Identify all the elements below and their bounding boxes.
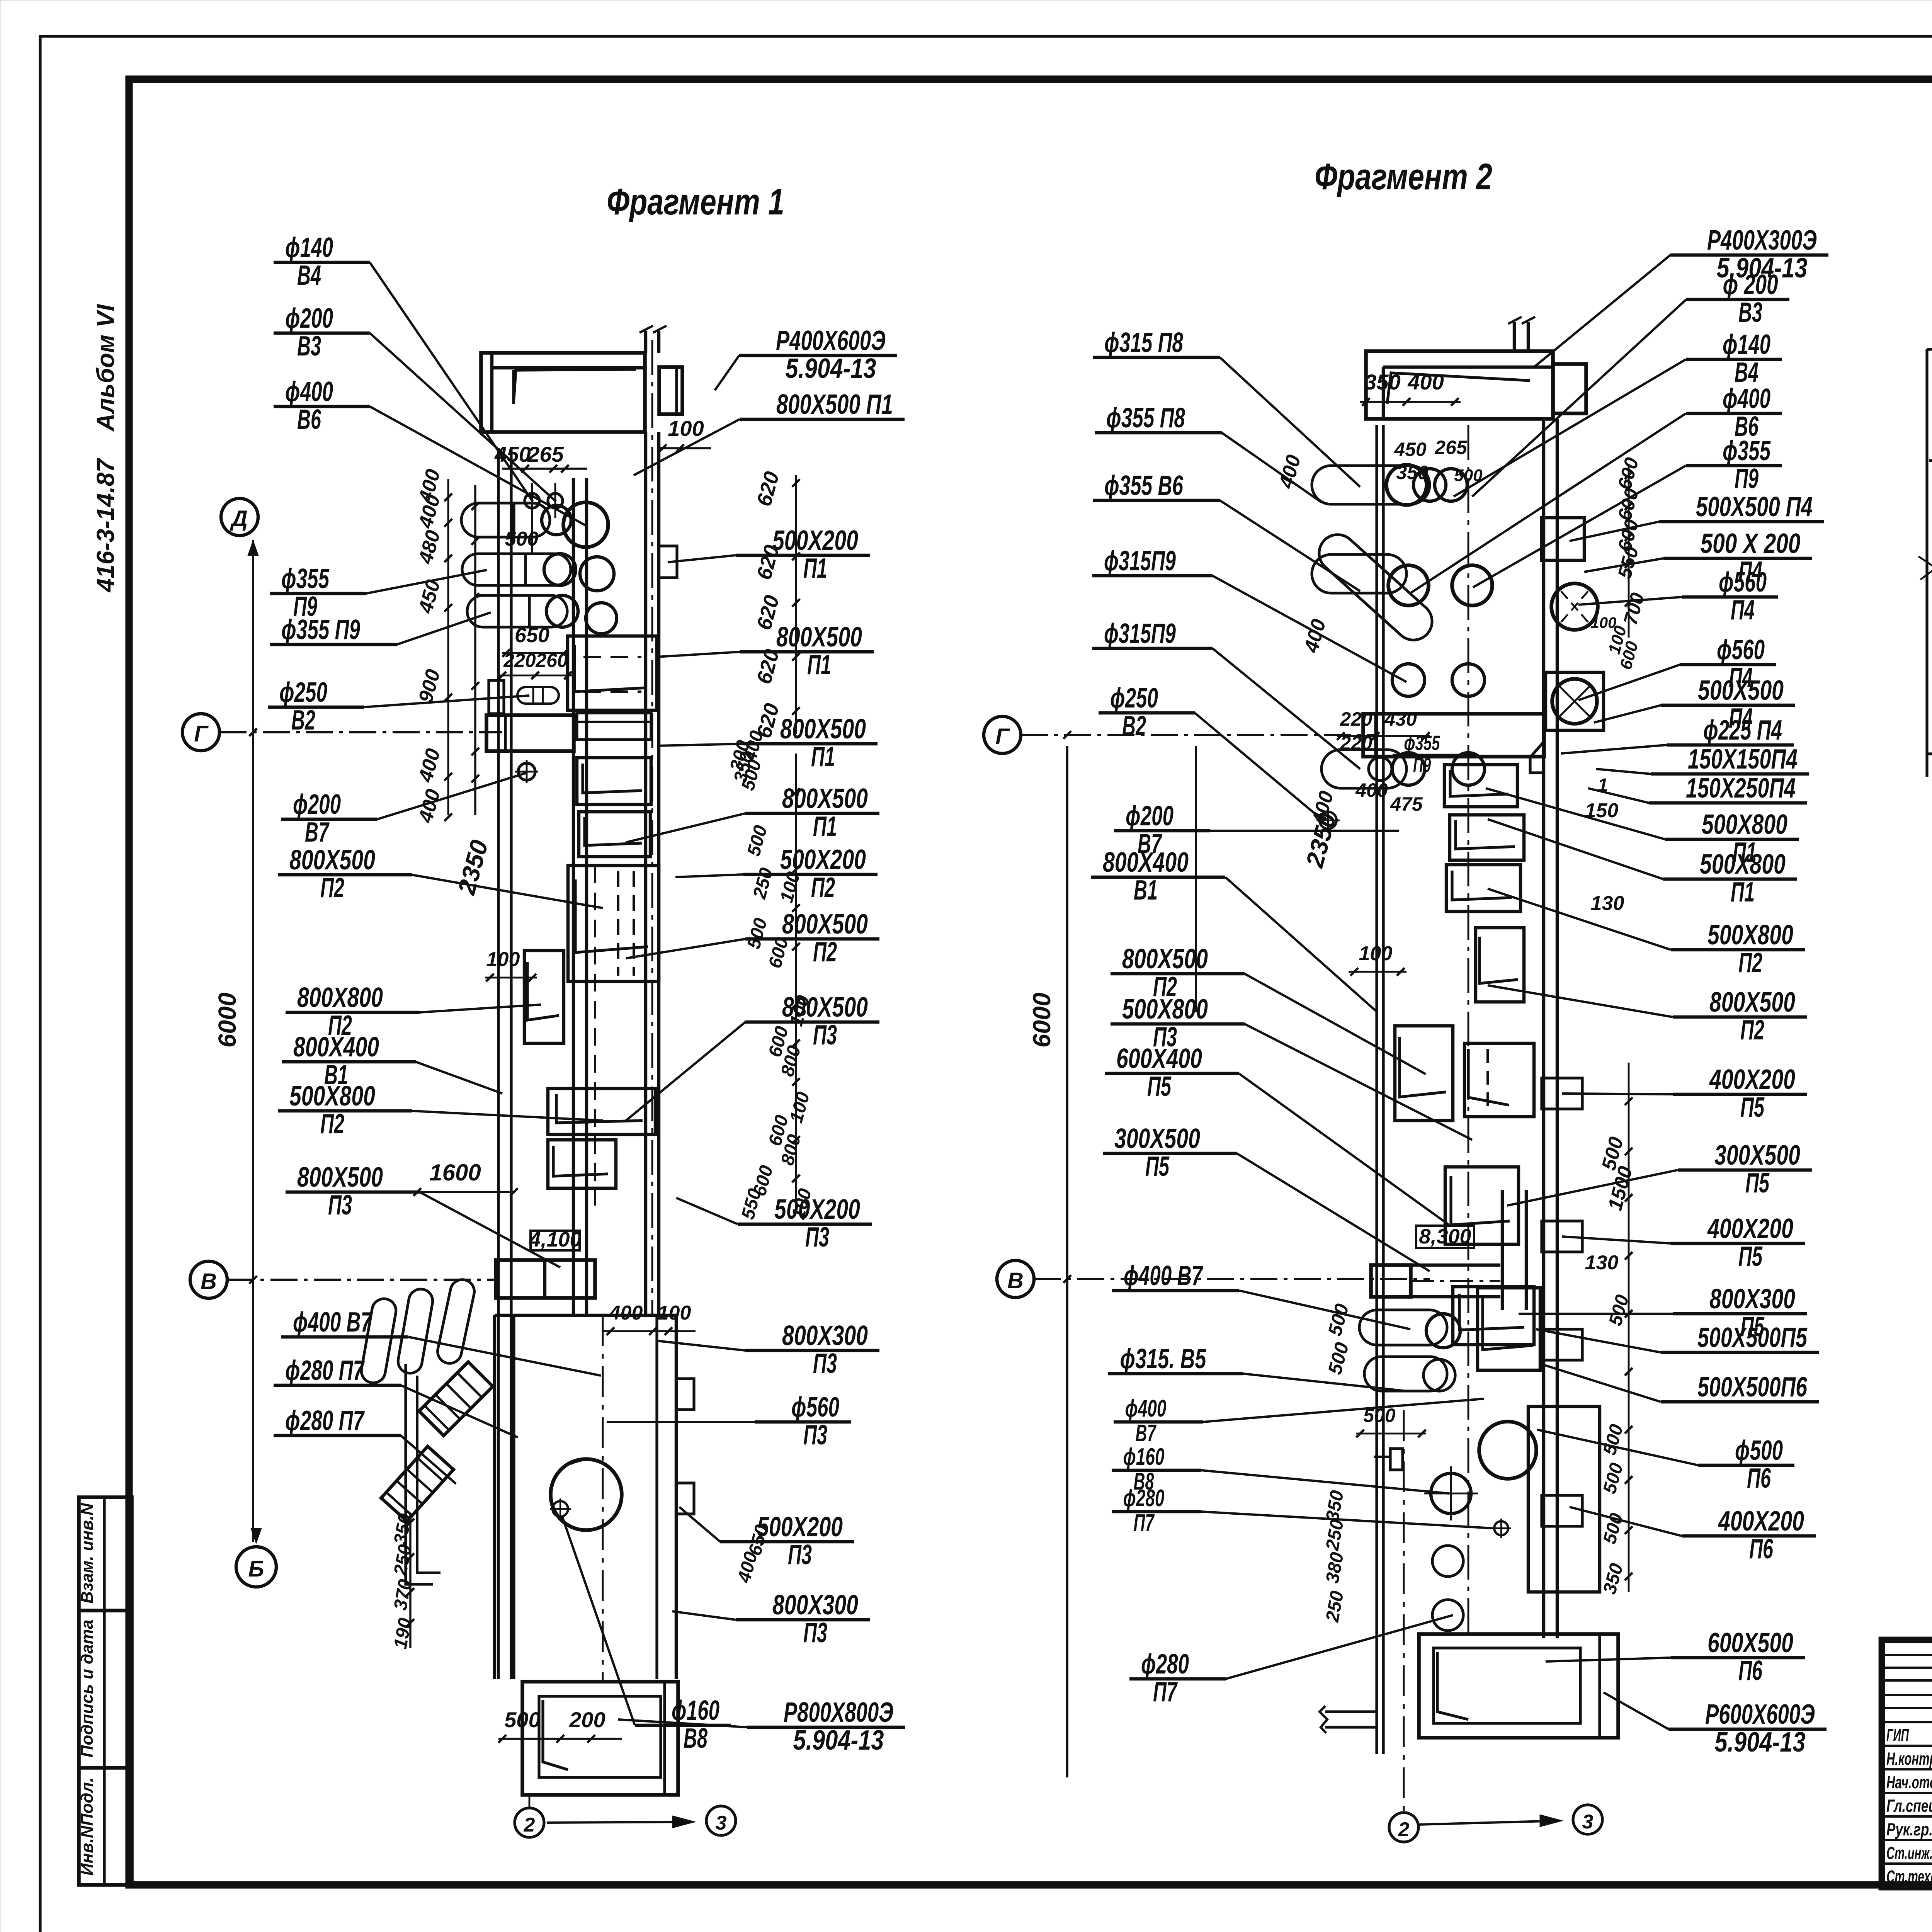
f2 label 500x500 P4 (1570, 492, 1824, 541)
svg-text:В6: В6 (297, 404, 321, 435)
svg-text:Б: Б (248, 1556, 264, 1582)
svg-text:ϕ400 В7: ϕ400 В7 (1124, 1260, 1203, 1291)
svg-text:П4: П4 (1731, 595, 1755, 626)
label f200/V7 (281, 773, 527, 848)
svg-text:ϕ560: ϕ560 (1717, 634, 1765, 665)
label 500x200/P1 (668, 525, 870, 584)
label 800x400/V1 (282, 1032, 502, 1094)
f1 pipe 3 (467, 595, 567, 627)
label f355 P9 (270, 612, 491, 645)
label f160/V8 (562, 1517, 731, 1754)
f2 label f200/V7 (1114, 801, 1399, 859)
label f200/V3 (274, 303, 556, 502)
svg-text:П7: П7 (1134, 1510, 1155, 1536)
label f560/P3 (607, 1392, 851, 1451)
label 800x300/P3 (657, 1320, 879, 1379)
rz level 11770 (1929, 431, 1932, 526)
f2 label f225 P4 (1561, 715, 1794, 753)
svg-text:800X400: 800X400 (1103, 847, 1189, 878)
svg-text:500X800: 500X800 (1700, 849, 1786, 880)
label 800x500 P1 (634, 389, 905, 475)
svg-text:В2: В2 (291, 705, 315, 736)
svg-text:150: 150 (1585, 799, 1619, 822)
svg-text:500X200: 500X200 (780, 844, 866, 875)
svg-text:Г: Г (995, 724, 1010, 749)
svg-text:416-3-14.87 Альбом VI: 416-3-14.87 Альбом VI (92, 304, 119, 593)
svg-text:П5: П5 (1738, 1241, 1763, 1272)
f2 grille boxes right (1444, 765, 1517, 807)
svg-text:Р800X800Э: Р800X800Э (784, 1697, 893, 1728)
svg-text:ϕ280 П7: ϕ280 П7 (285, 1355, 365, 1386)
f1 pipe 1 (461, 503, 550, 537)
f2 bottom circles 2-3 (1389, 1813, 1418, 1842)
svg-text:ϕ225 П4: ϕ225 П4 (1703, 715, 1782, 746)
f1 trunk band (577, 713, 651, 740)
svg-text:500X200: 500X200 (757, 1512, 843, 1543)
svg-text:500X500: 500X500 (1698, 675, 1784, 706)
svg-text:В3: В3 (297, 331, 321, 362)
svg-text:В4: В4 (297, 260, 321, 291)
svg-text:600X500: 600X500 (1708, 1628, 1793, 1658)
f2 vertical dim line (1066, 746, 1068, 1777)
svg-text:500X200: 500X200 (772, 525, 858, 556)
f1 trunk verticals (644, 432, 647, 1315)
f1 small circle fi160 (553, 1501, 568, 1517)
svg-text:Д: Д (230, 506, 248, 531)
f2 label f560/P4 b (1578, 634, 1776, 700)
f2 bottom left pipe (1325, 1710, 1376, 1713)
svg-text:ϕ400 В7: ϕ400 В7 (293, 1307, 372, 1338)
f2 right ext (1553, 364, 1586, 413)
f2 fi355 P9 small label (1393, 731, 1476, 777)
svg-text:260: 260 (535, 650, 568, 671)
svg-text:ГИП: ГИП (1886, 1725, 1909, 1745)
f2 big circle 500 (1479, 1422, 1536, 1479)
f2 label f140/V4 (1454, 329, 1782, 497)
f2 label P600x600E (1604, 1692, 1827, 1758)
f2 grid circle V (997, 1260, 1034, 1298)
svg-text:ϕ400: ϕ400 (285, 376, 333, 407)
svg-text:150X150П4: 150X150П4 (1688, 744, 1798, 775)
label f140/V4 (274, 232, 533, 502)
svg-text:Р400X300Э: Р400X300Э (1707, 225, 1817, 256)
svg-text:1: 1 (1598, 775, 1608, 796)
sidebar table (79, 1497, 132, 1885)
label P800x800E (618, 1697, 905, 1756)
svg-text:220: 220 (1340, 708, 1372, 730)
f2 top assembly (1366, 351, 1553, 419)
svg-text:2: 2 (1398, 1818, 1410, 1841)
f2 circles column (1431, 1473, 1471, 1514)
svg-text:П6: П6 (1747, 1463, 1771, 1494)
svg-text:П1: П1 (803, 553, 827, 584)
f2 label P400x300E (1534, 225, 1828, 367)
svg-text:100: 100 (1359, 942, 1393, 965)
f2 label 600x400/P5 (1105, 1043, 1449, 1225)
svg-text:450: 450 (1394, 439, 1427, 460)
f1 small circles top (525, 493, 539, 508)
f2 label 500x800/P3 (1111, 994, 1472, 1140)
label 800x500/P2 r (626, 909, 879, 968)
label P400x600E (715, 325, 897, 390)
svg-text:200: 200 (569, 1708, 605, 1732)
f2 label f315P9 a (1092, 546, 1406, 682)
f2 label f500/P6 (1537, 1430, 1794, 1494)
svg-text:ϕ315 П8: ϕ315 П8 (1104, 327, 1183, 358)
f2 label 150x250P4 (1588, 773, 1807, 804)
svg-text:430: 430 (1384, 708, 1417, 730)
svg-text:П5: П5 (1145, 1151, 1170, 1182)
svg-text:475: 475 (1390, 793, 1423, 815)
f2 box with circle 560 b (1546, 672, 1604, 730)
svg-text:ϕ250: ϕ250 (1110, 683, 1158, 714)
svg-text:220: 220 (503, 650, 536, 671)
f2 box 3020 (1445, 1167, 1519, 1244)
f2 label 500x800/P1 a (1486, 788, 1799, 868)
f1 bottom circles 2-3 (529, 1795, 531, 1808)
svg-text:100: 100 (668, 416, 704, 440)
f1 mid box 2 (548, 1088, 655, 1134)
svg-text:П1: П1 (1731, 877, 1755, 908)
svg-text:Фрагмент 1: Фрагмент 1 (607, 181, 784, 223)
svg-text:В1: В1 (1134, 875, 1158, 906)
f2 dim chain right (1628, 464, 1630, 638)
f1 wall strip (497, 448, 500, 1679)
f2 B-row horizontal duct (1371, 1265, 1411, 1297)
svg-text:ϕ355 В6: ϕ355 В6 (1104, 470, 1184, 501)
svg-text:350: 350 (1396, 462, 1429, 483)
svg-text:500 X 200: 500 X 200 (1701, 528, 1801, 559)
svg-text:П3: П3 (803, 1617, 827, 1648)
svg-text:П2: П2 (811, 872, 835, 903)
f1 P400x600 grille (659, 367, 682, 414)
f2 label f400/V6 (1410, 383, 1782, 593)
svg-text:500X500 П4: 500X500 П4 (1696, 492, 1813, 522)
f2 label f355/P9 (1473, 435, 1782, 587)
f2 label 600x500/P6 (1546, 1628, 1805, 1686)
label 500x200/P2 (675, 844, 878, 903)
f2 label 400x200/P6 (1570, 1506, 1816, 1565)
f1 elbow pipes (359, 1297, 398, 1384)
f2 label f315 P8 (1093, 327, 1360, 487)
vertical dim line 6000 f1 (252, 540, 254, 1542)
svg-text:В8: В8 (684, 1723, 707, 1754)
svg-text:400: 400 (609, 1302, 643, 1324)
f2 label 300x500/P5 (1103, 1123, 1430, 1271)
svg-text:500X800: 500X800 (289, 1081, 375, 1112)
main stamp (1882, 1640, 1932, 1887)
f2 box dashed (1464, 1043, 1534, 1117)
f1 lower outline box (406, 1364, 433, 1584)
svg-text:П2: П2 (1738, 947, 1762, 978)
label 500x200/P3 r (676, 1194, 872, 1253)
svg-text:ϕ315П9: ϕ315П9 (1104, 546, 1176, 577)
f2 boxed level 8,300 (1416, 1226, 1474, 1248)
svg-text:130: 130 (1585, 1252, 1619, 1274)
svg-text:Взам. инв.N: Взам. инв.N (78, 1503, 97, 1604)
svg-text:П2: П2 (813, 937, 837, 968)
f1 top assembly (481, 353, 645, 432)
f1 big circle (551, 1459, 622, 1530)
f2 big circle 560 a (1551, 583, 1598, 630)
f2 label f280/P7 (1112, 1485, 1492, 1536)
f1 small circle B7 (518, 763, 535, 780)
f2 elbow to trunk (1530, 742, 1544, 773)
svg-text:П6: П6 (1738, 1655, 1763, 1686)
svg-text:ϕ200: ϕ200 (293, 789, 341, 820)
f1 trunk box B (577, 758, 651, 804)
svg-text:ϕ355: ϕ355 (1404, 731, 1440, 755)
svg-text:П9: П9 (1413, 753, 1431, 777)
svg-text:400: 400 (1355, 779, 1388, 801)
f2 label f400/V7 (1114, 1395, 1484, 1447)
svg-text:350: 350 (1364, 370, 1400, 394)
svg-text:6000: 6000 (1028, 993, 1056, 1048)
f2 label 800x500/P2 (1111, 944, 1426, 1074)
label f250/V2 (268, 677, 529, 736)
svg-text:500X200: 500X200 (774, 1194, 860, 1225)
svg-text:3: 3 (716, 1812, 727, 1834)
svg-text:П1: П1 (807, 650, 831, 680)
svg-text:П5: П5 (1745, 1168, 1770, 1199)
f1 lower duct (493, 1315, 496, 1679)
svg-text:800X500: 800X500 (780, 714, 866, 745)
f2 trunk verticals (1542, 419, 1545, 1638)
f1 left box 800x800 (524, 951, 564, 1043)
f2 label f315P9 b (1092, 618, 1360, 769)
svg-text:Ст.инж.: Ст.инж. (1886, 1843, 1932, 1863)
f1 trunk box A (568, 636, 657, 710)
label f280 P7 (274, 1355, 518, 1437)
f2 label f250/V2 (1099, 683, 1321, 819)
f2 label 500x500/P4 (1594, 675, 1795, 734)
svg-text:ϕ315П9: ϕ315П9 (1104, 618, 1176, 649)
f1 dim chain left (474, 485, 476, 815)
f2 label f400 V7 (1112, 1260, 1410, 1329)
svg-text:130: 130 (1591, 892, 1624, 915)
label 800x500/P2 (278, 845, 603, 908)
svg-text:500X800: 500X800 (1122, 994, 1208, 1025)
svg-text:3: 3 (1582, 1811, 1594, 1833)
f2 small circle B2 (1320, 812, 1337, 829)
svg-text:Рук.гр.: Рук.гр. (1886, 1820, 1932, 1839)
svg-text:5.904-13: 5.904-13 (786, 353, 876, 384)
f2 label f160/V8 (1112, 1444, 1449, 1495)
f2 label f200/V3 (1472, 269, 1789, 497)
svg-text:В7: В7 (1136, 1420, 1157, 1447)
svg-text:ϕ160: ϕ160 (1123, 1444, 1165, 1470)
label 800x500/P3 r (626, 992, 879, 1121)
f2 label f355 V6 (1093, 470, 1360, 591)
svg-text:В: В (1007, 1268, 1024, 1293)
svg-text:П1: П1 (811, 742, 835, 772)
label 800x300/P3 b (672, 1590, 870, 1648)
label f355/P9 (270, 563, 487, 622)
svg-text:В3: В3 (1738, 297, 1762, 328)
svg-text:265: 265 (1434, 437, 1468, 458)
f2 label 500x200/P4 (1584, 528, 1812, 587)
f2 duct top stub (1513, 322, 1516, 351)
svg-text:500X800: 500X800 (1702, 809, 1787, 840)
f2 500x500 P4 box (1542, 518, 1584, 560)
f2 small flag (1390, 1449, 1403, 1470)
label f280 P7 2 (274, 1405, 456, 1484)
svg-text:1600: 1600 (429, 1160, 481, 1185)
svg-text:400X200: 400X200 (1718, 1506, 1804, 1537)
f1 dashed duct mid (594, 866, 596, 1206)
label 800x500/P1 a (657, 622, 874, 680)
f2 box 3330 (1453, 1287, 1534, 1345)
svg-text:ϕ280: ϕ280 (1141, 1649, 1189, 1680)
svg-text:4,100: 4,100 (529, 1228, 581, 1251)
f2 grid circle G (984, 716, 1021, 753)
svg-text:800X800: 800X800 (297, 982, 383, 1013)
f1 grille stub right (659, 546, 677, 578)
svg-text:П5: П5 (1147, 1071, 1172, 1102)
f2 bottom rect (1419, 1634, 1618, 1738)
svg-text:2: 2 (524, 1814, 535, 1836)
svg-text:100: 100 (1591, 614, 1617, 631)
svg-text:ϕ280: ϕ280 (1123, 1485, 1165, 1512)
svg-text:В7: В7 (305, 817, 330, 848)
f1 left stub duct (489, 680, 504, 714)
svg-text:Гл.спец.: Гл.спец. (1886, 1796, 1932, 1816)
rz left vertical (1925, 349, 1928, 777)
svg-text:П3: П3 (803, 1420, 827, 1451)
label 500x200/P3 b (679, 1507, 854, 1570)
grid circle G (182, 714, 219, 751)
f2 label 500x800/P1 b (1488, 819, 1797, 908)
f2 label 150x150P4 (1596, 744, 1809, 775)
svg-text:ϕ160: ϕ160 (672, 1695, 719, 1726)
svg-text:В: В (201, 1269, 217, 1294)
svg-text:150X250П4: 150X250П4 (1686, 773, 1796, 804)
svg-text:ϕ355: ϕ355 (1723, 435, 1771, 466)
f2 label 800x400/V1 (1091, 847, 1378, 1012)
label 500x800/P2 (278, 1081, 603, 1139)
svg-text:800X300: 800X300 (772, 1590, 858, 1621)
f2 label f315 V5 (1108, 1344, 1406, 1391)
svg-text:800X500 П1: 800X500 П1 (776, 389, 893, 420)
grid circle B (lower) (236, 1547, 276, 1587)
f2 label f280/P7 b (1129, 1615, 1453, 1708)
f1 mid box 1 (568, 866, 659, 981)
f1 oval fi250 (517, 687, 559, 704)
svg-text:500: 500 (1454, 466, 1483, 485)
svg-text:500X800: 500X800 (1708, 920, 1793, 951)
f2 centerline to circle 2 (1403, 1410, 1405, 1813)
svg-text:ϕ250: ϕ250 (279, 677, 327, 708)
svg-text:П3: П3 (813, 1348, 837, 1379)
label f400/V6 (274, 376, 586, 526)
f1 dim chain right (795, 475, 797, 734)
svg-text:400X200: 400X200 (1707, 1213, 1793, 1244)
svg-text:Нач.отд.: Нач.отд. (1886, 1772, 1932, 1792)
f2 label 400x200/P5 b (1562, 1213, 1805, 1272)
svg-text:500X500П6: 500X500П6 (1697, 1372, 1808, 1403)
svg-text:П9: П9 (1735, 463, 1759, 494)
svg-text:ϕ140: ϕ140 (285, 232, 333, 263)
svg-text:800X500: 800X500 (1122, 944, 1208, 975)
svg-text:ϕ560: ϕ560 (1719, 567, 1767, 598)
svg-text:800X500: 800X500 (782, 909, 868, 940)
f2 bottom assembly (1359, 1310, 1447, 1345)
svg-text:500: 500 (505, 528, 539, 550)
grid circle V (190, 1261, 227, 1298)
svg-text:П6: П6 (1749, 1534, 1774, 1565)
f1 elbow hatch 2 (381, 1446, 453, 1521)
f2 label 800x300/P5 (1519, 1284, 1807, 1342)
svg-text:П3: П3 (328, 1190, 352, 1221)
svg-text:800X500: 800X500 (782, 783, 868, 814)
f1 elbow hatch 1 (419, 1362, 493, 1436)
svg-text:ϕ355 П8: ϕ355 П8 (1106, 403, 1185, 434)
label 800x500/P1 b (657, 714, 878, 772)
svg-text:600X400: 600X400 (1116, 1043, 1202, 1074)
svg-text:800X300: 800X300 (1709, 1284, 1795, 1315)
label 800x800/P2 (286, 982, 541, 1041)
svg-text:П3: П3 (788, 1539, 812, 1570)
svg-text:500: 500 (504, 1708, 540, 1732)
svg-text:ϕ400: ϕ400 (1723, 383, 1770, 414)
svg-text:П3: П3 (813, 1020, 837, 1051)
rz top line (1927, 348, 1932, 350)
svg-text:8,300: 8,300 (1419, 1225, 1471, 1248)
svg-text:800X300: 800X300 (782, 1320, 868, 1351)
svg-text:Н.контр.: Н.контр. (1886, 1749, 1932, 1769)
f1 pipe 2 (462, 554, 571, 585)
svg-text:800X500: 800X500 (297, 1162, 383, 1193)
svg-text:265: 265 (527, 442, 564, 466)
svg-text:ϕ140: ϕ140 (1723, 329, 1770, 360)
svg-text:400X200: 400X200 (1709, 1064, 1795, 1095)
grid circle D (221, 498, 258, 536)
svg-text:650: 650 (515, 624, 549, 647)
svg-text:П2: П2 (320, 872, 344, 903)
svg-text:ϕ315. В5: ϕ315. В5 (1120, 1344, 1207, 1374)
svg-text:ϕ 200: ϕ 200 (1723, 269, 1778, 300)
f1 V-row box (496, 1260, 595, 1298)
f1 boxed level 4,100 (531, 1231, 580, 1250)
svg-text:5.904-13: 5.904-13 (793, 1725, 884, 1756)
svg-text:100: 100 (486, 948, 520, 971)
svg-text:П1: П1 (813, 811, 837, 842)
f1 duct top stub (644, 331, 647, 353)
f2 label 300x500/P5 (1507, 1140, 1812, 1206)
svg-text:300X500: 300X500 (1714, 1140, 1800, 1171)
svg-text:П2: П2 (320, 1109, 344, 1139)
svg-text:500: 500 (1363, 1405, 1396, 1426)
f2 label 500x500P5 (1536, 1322, 1819, 1353)
svg-text:100: 100 (658, 1302, 691, 1324)
f2 label 500x500P6 (1541, 1364, 1819, 1403)
svg-text:Фрагмент 2: Фрагмент 2 (1315, 156, 1492, 197)
svg-text:ϕ560: ϕ560 (791, 1392, 839, 1423)
svg-text:П5: П5 (1740, 1092, 1765, 1123)
f1 trunk box C (579, 812, 650, 857)
f2 pipes cluster (1312, 466, 1430, 504)
svg-text:ϕ200: ϕ200 (1126, 801, 1173, 832)
svg-text:800X500: 800X500 (1709, 987, 1795, 1018)
rz bottom line (1927, 752, 1932, 755)
f1 band duct (486, 715, 574, 751)
svg-text:ϕ500: ϕ500 (1735, 1435, 1783, 1466)
f2 label f355 P8 (1095, 403, 1321, 502)
svg-text:800X500: 800X500 (776, 622, 862, 653)
svg-text:Инв.NПодл.: Инв.NПодл. (78, 1777, 97, 1876)
f2 label 500x800/P2 (1488, 889, 1805, 978)
f2 label 800x500/P2 (1488, 985, 1807, 1046)
